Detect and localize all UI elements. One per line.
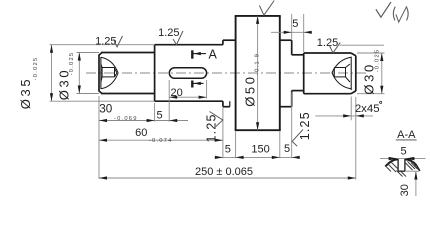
step d30 to d35 [154, 45, 156, 101]
svg-text:30: 30 [399, 184, 411, 196]
svg-text:-0.074: -0.074 [149, 138, 173, 144]
roughness check disc top [259, 1, 274, 16]
dimension 250 [99, 97, 356, 180]
svg-text:-0.025: -0.025 [374, 49, 380, 73]
dimension d50 [242, 16, 260, 130]
svg-text:5: 5 [292, 18, 298, 30]
svg-text:5: 5 [156, 109, 162, 121]
svg-text:-0.069: -0.069 [114, 116, 138, 122]
svg-text:5: 5 [225, 144, 231, 156]
svg-text:-0.025: -0.025 [69, 52, 75, 76]
svg-text:150: 150 [251, 143, 269, 155]
svg-text:1.25: 1.25 [95, 36, 116, 48]
dimension row 5 150 5 [215, 92, 300, 159]
left collar [223, 40, 236, 107]
section cut plane A top [192, 48, 217, 62]
roughness 1.25 left journal [95, 36, 122, 48]
svg-text:1.25: 1.25 [298, 111, 312, 140]
right collar [280, 40, 292, 107]
svg-text:Ø35: Ø35 [18, 77, 33, 109]
dimension 5 groove top [271, 14, 312, 52]
section A-A title [396, 129, 417, 141]
svg-text:30: 30 [99, 103, 113, 116]
section A-A keyway slot [398, 159, 405, 171]
svg-text:1.25: 1.25 [317, 37, 338, 49]
dimension 20 keyway [169, 80, 206, 99]
dimension d30 left [57, 52, 99, 101]
roughness 1.25 left groove rotated [205, 112, 223, 143]
svg-text:-0.025: -0.025 [33, 57, 39, 81]
svg-text:Ø50: Ø50 [242, 74, 257, 106]
d35 section body [155, 45, 223, 101]
dimension d30 right [357, 49, 385, 95]
svg-text:5: 5 [284, 143, 290, 155]
centerline main shaft axis [86, 72, 366, 74]
roughness 1.25 right groove rotated [292, 111, 312, 146]
svg-text:5: 5 [401, 145, 407, 157]
general roughness note top right [376, 2, 408, 22]
section A-A dimension 30 depth [399, 171, 419, 196]
dimension d35 [18, 45, 155, 109]
left journal body [99, 53, 155, 94]
right center hole [332, 57, 351, 89]
roughness 1.25 d35 section [158, 27, 183, 45]
section A-A dimension 5 [380, 145, 426, 160]
section A-A shaft surface arcs [385, 159, 420, 171]
section A-A hatching [387, 162, 420, 177]
svg-text:2x45: 2x45 [355, 103, 380, 115]
right journal body [304, 53, 356, 94]
svg-text:-0.1 9: -0.1 9 [255, 53, 261, 75]
left face extension line [98, 96, 100, 179]
disc d50 [235, 16, 281, 130]
svg-text:1.25: 1.25 [158, 27, 179, 39]
svg-text:60: 60 [135, 127, 147, 139]
keyway slot [169, 68, 206, 79]
svg-text:1.25: 1.25 [205, 113, 219, 142]
dimension 2x45 chamfer [315, 97, 381, 121]
dimension 60 [99, 108, 223, 159]
roughness 1.25 right journal [317, 37, 384, 53]
svg-text:A-A: A-A [397, 129, 416, 141]
svg-text:250 ± 0.065: 250 ± 0.065 [195, 166, 253, 178]
section cut plane A bottom [192, 81, 203, 88]
svg-text:20: 20 [170, 87, 182, 99]
dimension 30 [99, 103, 155, 123]
left center hole [101, 57, 118, 89]
dimension 5 keyway offset [155, 80, 188, 122]
svg-text:A: A [209, 48, 218, 62]
right groove [292, 55, 304, 91]
